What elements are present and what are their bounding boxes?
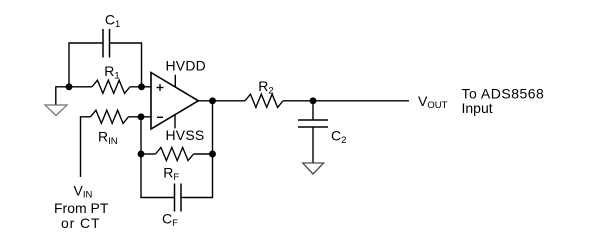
wire C1 left loop (69, 43, 103, 87)
node left (66, 83, 73, 90)
resistor RF (156, 147, 194, 160)
wire CF left branch (141, 154, 175, 198)
wire C2 riser (312, 101, 314, 120)
wire HVDD stub (174, 75, 176, 88)
capacitor C2 (298, 120, 328, 127)
svg-text:C2: C2 (331, 127, 346, 146)
svg-text:Input: Input (462, 100, 493, 116)
svg-text:HVDD: HVDD (166, 58, 206, 74)
svg-text:R1: R1 (104, 63, 119, 82)
wire Vin riser (81, 117, 91, 177)
wire to ground (56, 87, 69, 105)
wire RF left stub (141, 153, 156, 155)
svg-text:VOUT: VOUT (418, 93, 448, 111)
resistor R2 (245, 94, 283, 107)
ground right (303, 163, 324, 174)
resistor R1 (92, 80, 130, 93)
wire to Vout (313, 100, 409, 102)
svg-text:HVSS: HVSS (166, 127, 205, 143)
node plus input (138, 83, 145, 90)
resistor RIN (91, 110, 129, 123)
wire RIN to minus input (129, 116, 152, 118)
node RF right (209, 151, 216, 158)
wire minus node down (140, 117, 142, 154)
op-amp U1 (151, 73, 198, 130)
wire R2 to C2 node (283, 100, 313, 102)
wire C2 to ground (312, 127, 314, 163)
svg-text:R2: R2 (258, 78, 273, 97)
capacitor CF (175, 184, 182, 212)
wire node to R1 (69, 86, 92, 88)
wire CF right branch (181, 154, 213, 198)
svg-text:VIN: VIN (74, 183, 93, 201)
svg-text:RF: RF (163, 164, 179, 183)
wire C1 right loop (110, 43, 142, 87)
svg-text:or CT: or CT (61, 215, 101, 231)
node output (209, 97, 216, 104)
node C2 (310, 97, 317, 104)
wire HVSS stub (174, 115, 176, 129)
node minus input (138, 113, 145, 120)
wire R1 to op-amp plus (130, 86, 151, 88)
capacitor C1 (103, 29, 110, 58)
node RF left (138, 151, 145, 158)
wire op-amp output (198, 100, 245, 102)
svg-text:RIN: RIN (98, 129, 118, 148)
svg-text:CF: CF (162, 211, 178, 230)
svg-text:C1: C1 (105, 12, 120, 31)
svg-text:From PT: From PT (54, 200, 109, 216)
wire output node down (212, 101, 214, 154)
ground left (45, 105, 67, 116)
wire RF right stub (194, 153, 213, 155)
